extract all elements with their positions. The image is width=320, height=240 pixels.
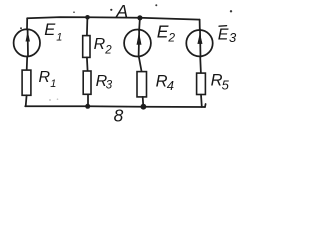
label R4 [156,73,174,93]
junction node top R2 [85,15,90,20]
junction node bottom R3 [85,104,90,109]
wire R3 to bottom bus [87,94,89,106]
node A label [110,1,128,21]
wire E2 to R4 [139,57,142,72]
svg-text:R: R [156,73,168,91]
resistor R1 [22,70,31,95]
svg-text:E: E [44,21,56,39]
label E2 [157,22,176,45]
svg-text:A: A [115,1,128,21]
wire R1 to bottom bus [25,95,28,106]
wire E1 to R1 [26,56,29,70]
wire R2 to R3 [86,57,89,71]
source E3 [186,29,212,57]
svg-text:2: 2 [104,44,112,56]
label R2 [94,36,113,56]
wire top bus A [27,17,199,20]
resistor R3 [83,71,91,94]
node B label [114,106,124,126]
label R3 [96,73,113,91]
wire R4 to bottom bus [142,97,145,107]
resistor R2 [83,36,90,58]
svg-text:2: 2 [167,30,175,44]
source E2 [124,30,151,57]
label R5 [211,72,230,93]
svg-text:8: 8 [114,106,124,124]
wire R5 to bottom bus [201,95,206,107]
svg-text:R: R [94,36,106,53]
label E1 [44,21,62,43]
svg-text:3: 3 [106,80,113,92]
wire top to E2 [138,18,141,31]
wire branch1 top drop [26,18,28,29]
junction node top E2 [137,15,142,20]
label R1 [39,69,57,90]
wire top to E3 [199,20,201,31]
junction node bottom R4 [141,104,147,110]
resistor R4 [137,72,147,97]
svg-text:1: 1 [50,78,56,90]
svg-text:5: 5 [222,77,230,92]
svg-text:3: 3 [229,30,237,45]
resistor R5 [197,73,206,94]
svg-text:E: E [157,22,169,42]
svg-text:E: E [218,27,229,44]
source E1 [14,29,40,56]
wire top to R2 [86,17,89,35]
label E3 with overbar [218,27,237,46]
svg-text:4: 4 [167,78,174,93]
svg-text:R: R [39,69,51,86]
wire bottom bus B [25,105,205,108]
svg-text:1: 1 [56,32,62,44]
wire E3 to R5 [199,57,202,74]
speckles [20,4,232,101]
